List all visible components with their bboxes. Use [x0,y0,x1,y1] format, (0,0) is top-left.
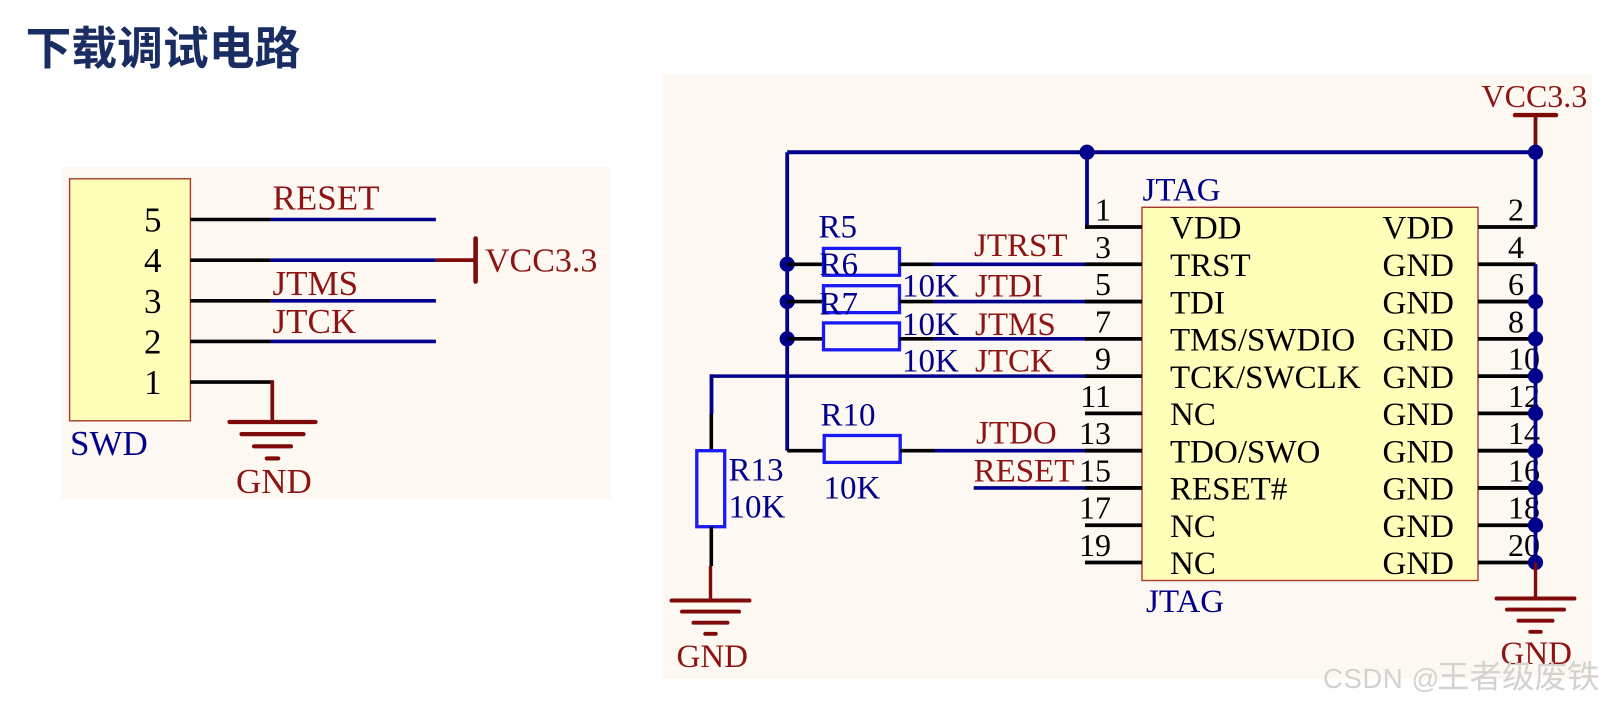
junction VCC rail / pin1 drop [1079,145,1094,160]
svg-text:5: 5 [144,201,162,240]
title 下载调试电路 [28,26,300,69]
junction GND bus pin 12 [1528,406,1543,421]
JTAG pin 13 stub [1085,449,1142,453]
svg-text:JTCK: JTCK [273,302,357,341]
svg-text:17: 17 [1079,490,1111,526]
svg-text:GND: GND [1383,248,1455,284]
svg-text:10K: 10K [902,269,959,305]
svg-text:RESET: RESET [273,179,380,218]
junction GND bus pin 8 [1528,331,1543,346]
wire RESET net (right) [974,486,1086,490]
wire drop to JTAG pin1 [1085,152,1089,229]
svg-text:TRST: TRST [1170,248,1251,284]
resistor R10 body [824,436,900,463]
svg-text:JTDI: JTDI [975,269,1043,305]
JTAG pin 16 stub [1478,486,1536,490]
wire VCC net (SWD pin4) [271,258,436,262]
wire drop to JTAG pin2 [1534,152,1538,227]
VCC3.3 bar lead down [1534,115,1538,154]
wire JTDO net [935,449,1087,453]
svg-text:NC: NC [1170,397,1216,433]
wire VCC top rail [787,150,1535,154]
svg-text:2: 2 [144,322,162,361]
svg-text:TDI: TDI [1170,285,1225,321]
svg-text:GND: GND [1383,509,1455,545]
svg-text:GND: GND [1383,472,1455,508]
SWD pin 5 stub [190,218,270,222]
resistor R13 top lead [709,414,713,451]
junction GND bus pin 14 [1528,443,1543,458]
svg-text:SWD: SWD [70,424,148,463]
svg-text:GND: GND [1383,397,1455,433]
wire SWD pin1 to ground [270,380,274,422]
junction VCC rail / VCC symbol [1528,145,1543,160]
SWD pin 3 stub [190,299,270,303]
junction GND bus pin 18 [1528,518,1543,533]
JTAG pin 11 stub [1085,411,1142,415]
svg-text:TMS/SWDIO: TMS/SWDIO [1170,323,1355,359]
resistor R10 left lead [787,449,824,453]
JTAG pin 19 stub [1085,561,1142,565]
svg-text:TCK/SWCLK: TCK/SWCLK [1170,360,1361,396]
svg-text:VCC3.3: VCC3.3 [485,243,597,280]
svg-text:GND: GND [1501,636,1573,672]
JTAG pin 1 stub [1085,225,1142,229]
svg-text:GND: GND [1383,360,1455,396]
svg-text:VDD: VDD [1383,211,1455,247]
svg-text:VCC3.3: VCC3.3 [1482,78,1588,114]
JTAG pin 17 stub [1085,523,1142,527]
resistor right lead row 0 [899,262,933,266]
resistor R6 body [824,286,900,313]
svg-text:6: 6 [1508,266,1524,302]
JTAG pin 9 stub [1085,374,1142,378]
wire JTCK net (SWD pin2) [271,340,436,344]
wire JTCK drop to R13 [710,374,714,414]
wire JTRST net [934,262,1086,266]
connector JTAG body [1142,207,1478,580]
svg-text:JTMS: JTMS [975,307,1056,343]
svg-text:1: 1 [144,363,162,402]
svg-text:R10: R10 [821,398,876,434]
sheet background right (schematic capture area) [663,75,1593,679]
junction GND bus pin 10 [1528,369,1543,384]
svg-text:CSDN @: CSDN @ [1323,663,1440,694]
resistor right lead row 2 [899,337,933,341]
svg-text:2: 2 [1508,192,1524,228]
junction GND bus pin 16 [1528,480,1543,495]
svg-text:TDO/SWO: TDO/SWO [1170,434,1320,470]
svg-text:7: 7 [1095,303,1111,339]
svg-text:GND: GND [1383,546,1455,582]
svg-text:GND: GND [236,462,312,501]
wire JTCK net [712,374,1087,378]
ground symbol (R13) [672,601,750,634]
junction pullup bus row 0 [780,257,795,272]
svg-text:RESET: RESET [974,453,1075,489]
wire JTMS net (SWD pin3) [271,299,436,303]
JTAG pin 2 stub [1478,225,1536,229]
JTAG pin 7 stub [1085,337,1142,341]
svg-text:10K: 10K [902,344,959,380]
junction GND bus pin 20 [1528,555,1543,570]
svg-text:NC: NC [1170,546,1216,582]
svg-text:VDD: VDD [1170,211,1242,247]
GND bus lead down [1534,563,1537,597]
svg-text:JTCK: JTCK [975,344,1054,380]
svg-text:JTMS: JTMS [273,264,359,303]
junction GND bus pin 6 [1528,294,1543,309]
junction pullup bus row 2 [780,331,795,346]
resistor left lead row 1 [787,300,822,304]
JTAG pin 4 stub [1478,262,1536,266]
svg-text:4: 4 [144,241,162,280]
wire VCC rail left drop (pullup bus) [785,152,789,450]
svg-text:10K: 10K [824,471,881,507]
wire JTMS net [934,337,1086,341]
JTAG pin 18 stub [1478,523,1536,527]
resistor R10 right lead [900,449,934,453]
resistor left lead row 0 [787,262,822,266]
svg-text:GND: GND [1383,323,1455,359]
watermark 王者级废铁 [1439,661,1599,691]
ground symbol (SWD) [230,422,316,458]
sheet background left (schematic capture area) [61,167,611,499]
svg-text:GND: GND [677,639,749,675]
svg-text:11: 11 [1080,378,1111,414]
svg-text:JTAG: JTAG [1146,584,1224,620]
SWD pin 2 stub [190,340,270,344]
svg-text:R7: R7 [820,287,859,323]
SWD pin 1 stub [190,380,273,384]
svg-text:3: 3 [144,282,162,321]
svg-text:5: 5 [1095,266,1111,302]
junction pullup bus row 1 [780,294,795,309]
R13 ground lead [709,566,712,599]
svg-text:R5: R5 [819,209,858,245]
JTAG pin 5 stub [1085,300,1142,304]
JTAG pin 6 stub [1478,300,1536,304]
wire RESET net (SWD pin5) [271,218,436,222]
VCC3.3 power rail lead (left) [436,258,474,262]
svg-text:RESET#: RESET# [1170,472,1287,508]
JTAG pin 12 stub [1478,411,1536,415]
svg-text:8: 8 [1508,303,1524,339]
svg-text:GND: GND [1383,434,1455,470]
svg-text:JTAG: JTAG [1143,173,1221,209]
svg-text:10K: 10K [729,490,786,526]
resistor right lead row 1 [899,300,933,304]
JTAG pin 3 stub [1085,262,1142,266]
resistor R13 bottom lead [709,527,713,566]
wire GND bus right [1534,264,1538,562]
svg-text:13: 13 [1079,415,1111,451]
svg-text:JTDO: JTDO [976,416,1057,452]
resistor R5 body [824,248,900,275]
svg-text:GND: GND [1383,285,1455,321]
connector SWD body [70,179,191,421]
svg-text:1: 1 [1095,192,1111,228]
svg-text:R13: R13 [729,453,784,489]
JTAG pin 15 stub [1085,486,1142,490]
SWD pin 4 stub [190,258,270,262]
svg-text:4: 4 [1508,229,1524,265]
JTAG pin 20 stub [1478,561,1536,565]
VCC3.3 power bar symbol (left) [473,239,478,282]
resistor R7 body [824,323,900,350]
JTAG pin 10 stub [1478,374,1536,378]
svg-text:JTRST: JTRST [974,228,1068,264]
svg-text:15: 15 [1079,452,1111,488]
resistor left lead row 2 [787,337,822,341]
VCC3.3 power bar symbol (top right) [1515,113,1556,117]
svg-text:3: 3 [1095,229,1111,265]
ground symbol (JTAG right) [1497,599,1575,632]
svg-text:9: 9 [1095,341,1111,377]
svg-text:R6: R6 [820,247,859,283]
resistor R13 body [697,451,725,527]
JTAG pin 14 stub [1478,449,1536,453]
svg-text:19: 19 [1079,527,1111,563]
JTAG pin 8 stub [1478,337,1536,341]
wire JTDI net [934,300,1086,304]
svg-text:NC: NC [1170,509,1216,545]
